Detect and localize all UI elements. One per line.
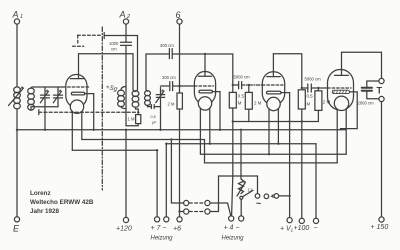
junction dot C1/bus bbox=[44, 129, 46, 131]
wire R0.5b bottom down to +100 bbox=[301, 109, 303, 218]
terminal heater +4 bbox=[229, 216, 234, 221]
junction dot V1 bar/bus bbox=[93, 129, 95, 131]
terminal +V1 bbox=[280, 218, 294, 233]
anode line V1 top run bbox=[79, 54, 134, 90]
junction dot V2 bar/bus bbox=[219, 129, 221, 131]
grid wire trimmer to coupling cap bbox=[161, 85, 170, 87]
heater line V1 right leg chain bbox=[82, 140, 337, 163]
svg-text:Jahr 1928: Jahr 1928 bbox=[30, 208, 60, 215]
speaker terminal T top bbox=[379, 78, 384, 83]
tube V4 filament legs bbox=[337, 109, 346, 163]
wire V3 anode top run bbox=[273, 54, 301, 88]
link plug circle a2 bbox=[184, 209, 189, 214]
title block bbox=[30, 190, 94, 215]
capacitor 0,5uF bbox=[148, 105, 161, 125]
svg-text:+Sg: +Sg bbox=[105, 84, 118, 93]
tube V3 envelope bbox=[262, 72, 284, 105]
wire link-b2 to box bbox=[210, 211, 219, 213]
svg-text:0.5: 0.5 bbox=[307, 94, 314, 99]
heater line V1 left leg bbox=[72, 149, 157, 151]
filament rheostat 12 bbox=[237, 179, 253, 196]
speaker terminal T bottom bbox=[379, 96, 384, 101]
coil LC bbox=[145, 54, 151, 107]
tube V3 anode bbox=[267, 54, 280, 77]
svg-text:+120: +120 bbox=[116, 226, 132, 233]
junction dot V2 anode bbox=[204, 53, 206, 55]
junction dots V3 legs bbox=[268, 153, 270, 155]
capacitor 1000cm bbox=[109, 41, 132, 52]
svg-text:M: M bbox=[307, 102, 311, 107]
junction dot coupling node a bbox=[232, 84, 234, 86]
grid-leak bus bbox=[233, 121, 319, 123]
wire minus rail corner down to minus terminal bbox=[315, 144, 317, 219]
svg-text:1: 1 bbox=[20, 14, 23, 20]
wire down to terminal E bbox=[16, 130, 18, 217]
wire link-b1 to heater +4 bbox=[210, 203, 231, 216]
junction dot rheostat/bus bbox=[240, 129, 242, 131]
svg-text:cm: cm bbox=[111, 47, 117, 52]
svg-text:2 M: 2 M bbox=[254, 101, 262, 106]
tick at gang link start bbox=[38, 110, 40, 115]
tube V2 anode bbox=[198, 54, 211, 76]
tube V2 cathode circle bbox=[198, 97, 211, 110]
svg-text:A: A bbox=[12, 10, 19, 20]
terminal 6 bbox=[176, 10, 183, 24]
link plug circle a1 bbox=[184, 200, 189, 205]
svg-text:1 M: 1 M bbox=[128, 117, 135, 122]
capacitor 5000cm (a) bbox=[233, 75, 250, 89]
coil LA bbox=[118, 87, 126, 109]
branch down to link plug bbox=[171, 140, 183, 204]
anode coupling corner down bbox=[231, 54, 233, 92]
heater series line V2 left leg to V4 bbox=[200, 153, 346, 155]
terminal heater minus bbox=[239, 216, 244, 221]
switch box left wire bbox=[218, 176, 220, 212]
wire R2Ma stems bbox=[248, 85, 250, 122]
svg-text:Lorenz: Lorenz bbox=[30, 190, 51, 197]
labels +4 - / Heizung bbox=[222, 225, 245, 242]
svg-text:+ 4 −: + 4 − bbox=[224, 225, 240, 232]
svg-text:+ 7 −: + 7 − bbox=[151, 225, 167, 232]
svg-text:300 cm: 300 cm bbox=[162, 75, 176, 80]
junction dot heater +7 bbox=[156, 149, 158, 151]
tube V4 grid (dashed) bbox=[328, 87, 352, 89]
anode coupling line with 300cm cap (a) bbox=[146, 43, 232, 59]
junction dot rail/minus bbox=[165, 143, 167, 145]
tube V3 grid (dashed) bbox=[262, 84, 283, 86]
wire 6-line branch to link bbox=[180, 211, 184, 213]
terminal +150 bbox=[371, 217, 389, 231]
switch contact arrow mark bbox=[271, 194, 274, 199]
terminal minus (right) bbox=[313, 218, 318, 232]
tube V2 envelope bbox=[194, 72, 215, 105]
switch box top wire bbox=[219, 176, 258, 193]
tube V1 inner electrode bar bbox=[71, 92, 93, 95]
labels +7 - / Heizung bbox=[151, 225, 174, 242]
wire terminal 6 down to grid dot bbox=[179, 24, 181, 93]
grid wire to tube V4 bbox=[311, 87, 327, 89]
tube V3 cathode circle bbox=[267, 97, 280, 110]
svg-text:0.5: 0.5 bbox=[238, 94, 245, 99]
resistor 0.5M (a) bbox=[229, 92, 244, 108]
terminal A2 bbox=[119, 10, 131, 25]
svg-text:300 cm: 300 cm bbox=[160, 43, 174, 48]
svg-text:A: A bbox=[119, 10, 126, 20]
tube V1 grid (dashed) bbox=[63, 86, 89, 88]
wire contact3 to V1 plate line bbox=[279, 195, 290, 197]
svg-text:+ 150: + 150 bbox=[371, 224, 389, 231]
terminal minus (left) bbox=[164, 217, 169, 222]
main ground bus bbox=[17, 129, 346, 131]
junction dot trimmer/bus bbox=[159, 129, 161, 131]
switch contact 2 bbox=[264, 194, 269, 199]
resistor 2M (a) bbox=[245, 92, 261, 109]
junction dot R0.5b bbox=[301, 120, 303, 122]
wire rheostat to heater minus bbox=[240, 199, 242, 216]
link plug circle b1 bbox=[205, 200, 210, 205]
tick mark at link junction bbox=[103, 33, 105, 39]
svg-text:2000 cm: 2000 cm bbox=[358, 101, 375, 106]
resistor 1M bbox=[128, 115, 141, 124]
terminal +120 bbox=[116, 217, 132, 232]
svg-text:Heizung: Heizung bbox=[151, 236, 174, 242]
tube V3 filament legs bbox=[269, 109, 278, 155]
ganged tuning dash-dot link vertical bbox=[101, 27, 103, 190]
heater negative rail bbox=[166, 143, 316, 145]
svg-text:1000: 1000 bbox=[109, 41, 119, 46]
wire L2 top to grid line bbox=[31, 87, 63, 88]
antenna coil L1 (variable) bbox=[9, 86, 24, 109]
capacitor 2000cm across T bbox=[358, 81, 379, 106]
anode-return wire +V1 bbox=[289, 93, 291, 218]
wire R0.5a bottom down bbox=[232, 108, 233, 216]
svg-text:5000 cm: 5000 cm bbox=[234, 75, 251, 80]
junction dot R0.5a bbox=[232, 120, 234, 122]
tube V1 cathode circle bbox=[70, 100, 83, 113]
grid capacitor 300cm (b) bbox=[162, 75, 176, 91]
junction dot coupling node b bbox=[301, 87, 303, 89]
tube V4 anode bbox=[335, 52, 349, 75]
svg-text:+100: +100 bbox=[294, 225, 310, 232]
svg-text:Weltecho ERWW 42B: Weltecho ERWW 42B bbox=[30, 199, 94, 206]
tube V1 filament legs bbox=[72, 111, 82, 150]
wire L2 bottom node bbox=[31, 107, 58, 110]
svg-text:+6: +6 bbox=[173, 226, 181, 233]
tube V2 inner electrode bar bbox=[199, 90, 220, 93]
wire V2 bar lead down to bus bbox=[219, 92, 221, 130]
switch contact 1 bbox=[255, 194, 260, 199]
wire V1 bar lead down to bus bbox=[93, 94, 95, 130]
wire A2 down to capacitor bbox=[125, 24, 127, 42]
dashed shield corner top-left bbox=[73, 35, 101, 46]
coil LB bbox=[132, 89, 139, 114]
junction dot branch bbox=[170, 138, 172, 140]
tube V2 grid (dashed) bbox=[194, 85, 213, 87]
switch lever bbox=[240, 190, 253, 199]
tube V1 anode bbox=[70, 54, 83, 79]
grid leak resistor 2M (V2) bbox=[168, 93, 183, 109]
junction dots on +V1 wire bbox=[288, 120, 290, 197]
trimmer capacitor C1 (variable) bbox=[40, 87, 49, 130]
wire A2 column to +120 bbox=[125, 130, 127, 218]
junction dot grid V2 bbox=[178, 85, 181, 88]
wire V4 anode top run to speaker bbox=[342, 52, 382, 78]
junction dot A bbox=[16, 129, 18, 131]
resistor 2M (b) bbox=[315, 91, 331, 111]
svg-text:E: E bbox=[13, 224, 20, 234]
tube V3 inner electrode bar bbox=[267, 91, 290, 94]
svg-text:+ V₁: + V₁ bbox=[280, 226, 294, 233]
svg-text:2 M: 2 M bbox=[168, 102, 175, 107]
wire L1 bottom to ground bus bbox=[16, 109, 18, 130]
link plug circle b2 bbox=[205, 209, 210, 214]
svg-text:5000 cm: 5000 cm bbox=[305, 77, 322, 82]
terminal +6 bbox=[173, 217, 182, 233]
wire down to minus-left terminal bbox=[165, 144, 167, 217]
grid wire to tube V2 bbox=[173, 85, 195, 87]
wire A1 down to antenna coil bbox=[16, 24, 18, 87]
tube V4 inner electrode bar (hatched) bbox=[332, 90, 357, 93]
svg-text:−: − bbox=[314, 225, 318, 232]
junction dot R2Mb top bbox=[317, 87, 319, 89]
svg-text:T: T bbox=[377, 86, 383, 96]
svg-text:~: ~ bbox=[256, 199, 261, 209]
junction dot A2/bus bbox=[125, 129, 127, 131]
junction dot R2Ma top bbox=[248, 84, 250, 86]
grid coupling dash line to V3 bbox=[242, 84, 263, 86]
resistor 0.5M (b) bbox=[298, 90, 313, 109]
trimmer capacitor C2 (variable) bbox=[53, 87, 62, 107]
capacitor 5000cm (b) bbox=[302, 77, 321, 93]
wire T bottom down to +150 bbox=[381, 102, 383, 217]
wire resistor 1M bottom link bbox=[126, 124, 138, 126]
wire A2 column down bbox=[125, 45, 127, 125]
wire R2Mb stems bbox=[317, 88, 319, 122]
link dashed segments bbox=[190, 203, 205, 212]
tube V1 envelope bbox=[66, 75, 87, 108]
tube V4 envelope (output) bbox=[328, 70, 354, 111]
tube V2 filament legs bbox=[200, 108, 211, 154]
wire down to +7 terminal bbox=[156, 150, 158, 217]
wire top feed to coil LB bbox=[104, 36, 137, 90]
tube V4 cathode circle bbox=[334, 96, 348, 110]
svg-text:M: M bbox=[238, 101, 242, 106]
terminal +100 bbox=[294, 218, 310, 232]
ganged tuning dashed link horizontal bbox=[39, 111, 139, 113]
svg-text:µF: µF bbox=[152, 121, 157, 125]
terminal E bbox=[13, 217, 20, 234]
trimmer capacitor C3 (variable) bbox=[156, 88, 165, 130]
terminal +7 bbox=[155, 217, 160, 222]
wire below grid leak down to +6 bbox=[179, 109, 181, 217]
junction dot 6-line bbox=[178, 210, 180, 212]
wire V4 bar hook down to bus bbox=[341, 92, 358, 130]
svg-text:Heizung: Heizung bbox=[222, 236, 245, 242]
rheostat feed wire bbox=[240, 130, 242, 179]
switch contact 3 bbox=[274, 194, 279, 199]
terminal A1 bbox=[12, 10, 24, 25]
svg-text:0,5: 0,5 bbox=[151, 115, 156, 119]
coupling coil L2 bbox=[28, 88, 35, 110]
